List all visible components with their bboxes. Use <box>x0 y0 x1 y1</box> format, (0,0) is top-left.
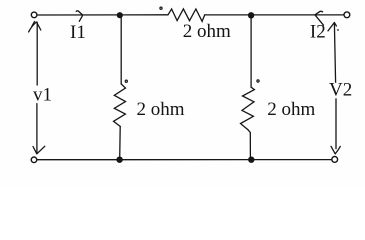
terminal top-right (open circle) <box>344 12 350 18</box>
resistor R3 2 ohm (right vertical zigzag) <box>241 87 255 130</box>
resistor R2 2 ohm (left vertical zigzag) <box>114 84 126 126</box>
node B junction dot top-right <box>248 12 254 18</box>
V2 arrowhead top (pointing up) <box>328 23 339 31</box>
node C junction dot bottom-left <box>116 157 122 163</box>
svg-text:V2: V2 <box>329 80 352 101</box>
svg-text:v1: v1 <box>33 85 52 106</box>
v1 arrowhead top (pointing up) <box>29 21 41 32</box>
v1 voltage arrow lower shaft <box>36 104 38 153</box>
resistor R1 2 ohm (top, horizontal zigzag) <box>168 9 205 22</box>
v1 arrowhead bottom (pointing down) <box>33 146 45 154</box>
terminal top-left (open circle) <box>31 12 37 18</box>
pin mark small circle beside R3 <box>257 80 259 82</box>
terminal bottom-left (open circle) <box>31 157 37 163</box>
V2 voltage arrow upper shaft <box>334 24 335 83</box>
svg-text:2 ohm: 2 ohm <box>267 99 315 120</box>
V2 arrowhead bottom (pointing down) <box>331 146 340 154</box>
label 2 ohm (R1) <box>183 21 231 42</box>
wire top rail right segment <box>205 14 344 16</box>
label 2 ohm (R3) <box>267 99 315 120</box>
wire from R3 down to node D <box>248 130 250 160</box>
wire bottom rail <box>37 159 332 161</box>
label I2 <box>310 21 326 42</box>
wire top rail left segment <box>38 14 168 16</box>
label v1 <box>31 85 53 106</box>
svg-text:I2: I2 <box>310 21 326 42</box>
svg-text:I1: I1 <box>70 22 86 43</box>
V2 voltage arrow lower shaft <box>335 98 337 149</box>
v1 voltage arrow upper shaft <box>36 22 38 85</box>
wire from R2 down to node C <box>119 126 122 159</box>
pin mark small circle beside R2 <box>125 80 127 82</box>
I1 current arrow chevron on top-left wire <box>76 11 82 22</box>
node D junction dot bottom-right <box>248 157 254 163</box>
label I1 <box>70 22 86 43</box>
I2 current arrow chevron on top-right wire <box>315 11 324 25</box>
svg-text:2 ohm: 2 ohm <box>137 99 185 120</box>
label V2 <box>327 80 353 101</box>
node A junction dot top-left <box>117 12 123 18</box>
label 2 ohm (R2) <box>137 99 185 120</box>
terminal bottom-right (open circle) <box>332 157 338 163</box>
pin mark small circle above R1 <box>160 7 162 9</box>
wire from node B down to R3 <box>250 16 252 87</box>
svg-text:2 ohm: 2 ohm <box>183 21 231 42</box>
wire from node A down to R2 <box>120 16 122 84</box>
